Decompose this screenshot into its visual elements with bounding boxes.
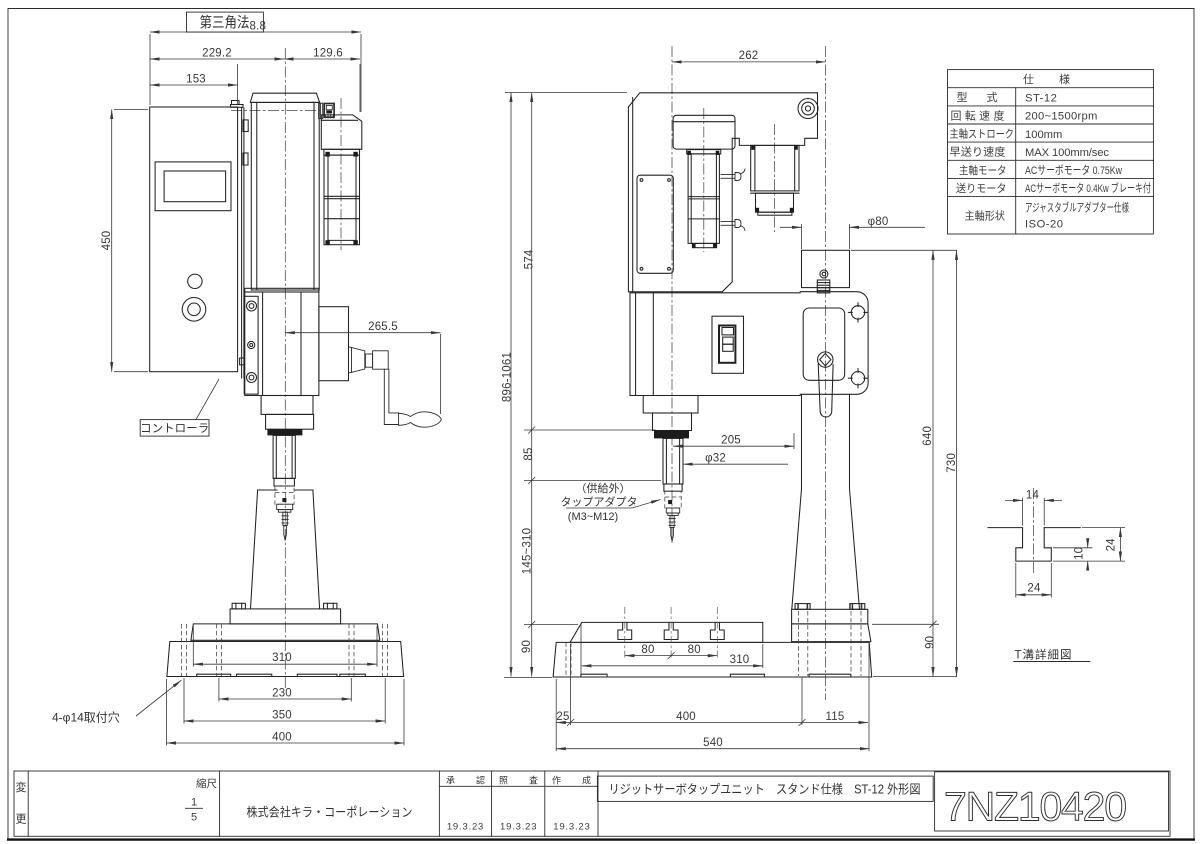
svg-text:ISO-20: ISO-20	[1025, 219, 1063, 231]
svg-text:成: 成	[582, 775, 591, 786]
svg-text:540: 540	[703, 737, 723, 749]
svg-text:19.3.23: 19.3.23	[447, 822, 484, 833]
svg-text:640: 640	[922, 426, 934, 446]
svg-text:タップアダプタ: タップアダプタ	[561, 495, 638, 509]
svg-text:400: 400	[676, 711, 696, 723]
svg-text:変: 変	[16, 780, 27, 794]
svg-text:早送り速度: 早送り速度	[950, 145, 1006, 159]
svg-text:縮尺: 縮尺	[196, 777, 217, 790]
svg-text:24: 24	[1106, 538, 1118, 552]
svg-text:T溝詳細図: T溝詳細図	[1014, 648, 1072, 662]
svg-text:7NZ10420: 7NZ10420	[944, 784, 1126, 830]
svg-text:φ80: φ80	[868, 216, 889, 228]
svg-text:145~310: 145~310	[522, 528, 534, 575]
svg-text:4-φ14取付穴: 4-φ14取付穴	[52, 710, 120, 725]
svg-text:リジットサーボタップユニット スタンド仕様 ST-12 外形: リジットサーボタップユニット スタンド仕様 ST-12 外形図	[609, 782, 921, 797]
svg-text:10: 10	[1074, 547, 1086, 560]
svg-text:式: 式	[987, 91, 998, 104]
svg-text:(M3~M12): (M3~M12)	[568, 511, 618, 523]
svg-text:115: 115	[826, 711, 845, 723]
svg-text:100mm: 100mm	[1025, 129, 1062, 141]
svg-text:19.3.23: 19.3.23	[553, 822, 590, 833]
svg-text:型: 型	[957, 90, 968, 104]
svg-text:85: 85	[523, 447, 535, 460]
svg-text:主軸形状: 主軸形状	[965, 209, 1006, 223]
svg-text:送りモータ: 送りモータ	[956, 181, 1007, 195]
svg-text:450: 450	[101, 231, 113, 251]
svg-text:ACサーボモータ 0.75Kw: ACサーボモータ 0.75Kw	[1025, 164, 1123, 177]
svg-text:350: 350	[272, 709, 292, 721]
svg-text:205: 205	[721, 435, 741, 447]
svg-text:310: 310	[730, 654, 750, 666]
svg-text:262: 262	[739, 50, 759, 62]
svg-text:承: 承	[446, 776, 455, 786]
svg-text:19.3.23: 19.3.23	[500, 822, 537, 833]
svg-text:25: 25	[556, 711, 569, 723]
svg-text:896-1061: 896-1061	[502, 352, 514, 402]
svg-text:400: 400	[272, 731, 292, 743]
svg-text:200~1500rpm: 200~1500rpm	[1025, 111, 1098, 123]
svg-text:14: 14	[1026, 490, 1040, 502]
svg-text:株式会社キラ・コーポレーション: 株式会社キラ・コーポレーション	[247, 805, 413, 820]
svg-text:主軸モータ: 主軸モータ	[959, 163, 1007, 177]
svg-text:229.2: 229.2	[202, 47, 232, 59]
svg-text:153: 153	[186, 73, 206, 85]
svg-text:査: 査	[529, 775, 538, 786]
svg-text:730: 730	[946, 453, 958, 473]
svg-text:ST-12: ST-12	[1025, 93, 1057, 105]
svg-text:（供給外）: （供給外）	[576, 481, 631, 495]
svg-text:80: 80	[688, 644, 701, 656]
svg-text:ACサーボモータ 0.4Kw ブレーキ付: ACサーボモータ 0.4Kw ブレーキ付	[1025, 181, 1151, 195]
svg-text:80: 80	[641, 644, 654, 656]
svg-text:照: 照	[499, 776, 508, 786]
svg-text:MAX 100mm/sec: MAX 100mm/sec	[1025, 147, 1109, 159]
svg-text:230: 230	[272, 687, 292, 699]
svg-text:24: 24	[1027, 583, 1041, 595]
svg-text:様: 様	[1059, 72, 1070, 86]
svg-text:310: 310	[272, 652, 292, 664]
svg-text:更: 更	[16, 814, 27, 826]
svg-text:8.8: 8.8	[250, 21, 267, 33]
svg-text:90: 90	[925, 636, 937, 649]
svg-text:265.5: 265.5	[368, 321, 398, 333]
svg-text:コントローラ: コントローラ	[140, 423, 209, 435]
svg-text:主軸ストローク: 主軸ストローク	[950, 127, 1015, 141]
svg-text:φ32: φ32	[705, 453, 726, 465]
svg-text:アジャスタブルアダプター仕様: アジャスタブルアダプター仕様	[1025, 201, 1129, 215]
svg-text:第三角法: 第三角法	[200, 14, 250, 32]
svg-text:5: 5	[191, 812, 197, 824]
svg-text:作: 作	[552, 775, 561, 786]
svg-text:認: 認	[476, 775, 485, 786]
svg-text:90: 90	[521, 640, 533, 653]
svg-text:129.6: 129.6	[313, 47, 343, 59]
svg-text:仕: 仕	[1023, 73, 1034, 86]
svg-text:1: 1	[191, 797, 197, 809]
svg-text:574: 574	[524, 249, 536, 269]
